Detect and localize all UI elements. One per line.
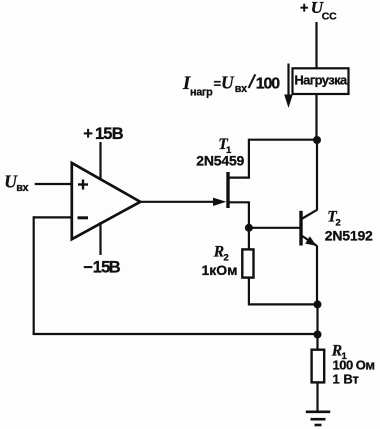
resistor R1 [312, 350, 325, 383]
wire node B to T2 base [249, 227, 300, 229]
svg-text:Нагрузка: Нагрузка [294, 73, 348, 88]
wire T1 drain lead [228, 140, 317, 178]
svg-text:100 Ом: 100 Ом [333, 357, 375, 372]
node D junction dot (feedback tap) [314, 331, 322, 339]
wire U_вх to op-amp noninverting input [35, 183, 72, 185]
wire load box to node A (right rail upper) [315, 94, 317, 141]
wire T1 source lead to node B [228, 202, 249, 228]
svg-text:−: − [83, 259, 93, 277]
wire positive supply to op-amp [99, 142, 101, 180]
wire +Ucc to load box [315, 22, 317, 69]
transistor T1 (JFET 2N5459) channel bar [226, 172, 229, 208]
svg-text:+: + [83, 125, 93, 143]
label T1 [218, 136, 232, 156]
wire node B down to R2 [248, 228, 250, 250]
resistor R2 [242, 249, 253, 277]
node A junction dot (drain to rail) [313, 136, 321, 144]
wire rail node A to T2 collector [316, 140, 318, 211]
svg-text:CC: CC [322, 10, 337, 22]
wire negative supply to op-amp [99, 222, 101, 255]
label R1 [331, 342, 348, 362]
svg-text:2N5459: 2N5459 [196, 152, 244, 168]
svg-text:15: 15 [93, 259, 110, 277]
transistor T2 2N5192 [301, 210, 317, 246]
label I_нагр = U_вх / 100 [182, 73, 280, 99]
current arrow I_нагр [284, 64, 293, 109]
svg-text:U: U [221, 73, 235, 93]
node C junction dot (emitter/R2 bottom) [314, 300, 322, 308]
svg-text:2N5192: 2N5192 [325, 228, 373, 244]
wire feedback left vertical [33, 216, 35, 335]
svg-text:вх: вх [235, 83, 247, 95]
label T2 [327, 209, 341, 229]
svg-text:15: 15 [95, 125, 112, 143]
label U_вх [4, 171, 28, 194]
svg-text:В: В [112, 125, 124, 143]
svg-text:нагр: нагр [190, 87, 213, 99]
wire op-amp output to T1 gate [140, 201, 222, 203]
node B junction dot (source/base/R2) [245, 224, 253, 232]
wire feedback bottom horizontal [33, 333, 317, 335]
T1 gate arrowhead [213, 198, 226, 206]
wire R2 bottom to node C [249, 278, 318, 305]
svg-text:1кОм: 1кОм [202, 262, 238, 278]
svg-text:+: + [300, 1, 308, 17]
ground [306, 412, 330, 425]
wire op-amp inverting input to feedback [34, 216, 72, 218]
wire T2 emitter to node C [316, 246, 318, 306]
svg-text:вх: вх [16, 182, 28, 194]
wire R1 to ground [316, 382, 318, 412]
svg-text:1 Вт: 1 Вт [333, 371, 359, 386]
power +Ucc label [300, 0, 337, 22]
svg-text:R: R [213, 244, 224, 261]
svg-text:100: 100 [256, 76, 280, 93]
op-amp U1 [72, 163, 141, 239]
label R2 [213, 244, 229, 264]
wire node C to node D [316, 304, 318, 334]
load box Нагрузка [293, 68, 349, 94]
wire node D to R1 [316, 335, 318, 351]
svg-text:В: В [109, 259, 121, 277]
